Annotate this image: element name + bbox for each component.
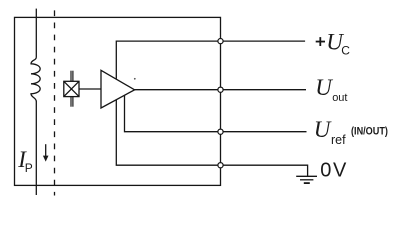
supply wire to +UC terminal <box>116 41 220 79</box>
primary conductor top lead <box>35 9 37 58</box>
hall element top contact <box>71 71 73 82</box>
wire Uref terminal lead <box>221 131 307 133</box>
terminal node Uout <box>218 87 223 92</box>
wire hall output to amplifier <box>79 88 101 90</box>
label Uout <box>315 75 347 104</box>
label 0V <box>320 159 348 181</box>
magnetic core dashed line <box>54 10 56 195</box>
svg-text:ref: ref <box>331 133 346 147</box>
hall element bottom contact <box>71 97 73 107</box>
wire amplifier output to Uout terminal <box>135 89 221 91</box>
ground <box>296 176 317 183</box>
wire +UC terminal lead <box>221 40 306 42</box>
primary winding <box>31 57 40 101</box>
stray dot <box>134 78 136 80</box>
terminal node Uref <box>218 129 223 134</box>
primary conductor bottom lead <box>35 101 37 195</box>
label +UC <box>316 30 351 58</box>
label IP <box>17 147 33 175</box>
terminal node +UC <box>218 39 223 44</box>
wire Uout terminal lead <box>221 89 307 91</box>
svg-text:out: out <box>332 92 347 104</box>
svg-text:0V: 0V <box>320 159 348 181</box>
label Uref (IN/OUT) <box>314 117 388 147</box>
hall generator box with X <box>64 81 79 96</box>
terminal node 0V <box>218 163 223 168</box>
svg-text:C: C <box>341 44 350 58</box>
wire 0V terminal lead <box>221 165 308 176</box>
op-amp triangle <box>101 70 135 108</box>
svg-text:P: P <box>25 161 33 175</box>
svg-text:(IN/OUT): (IN/OUT) <box>351 126 388 138</box>
svg-text:U: U <box>315 75 333 100</box>
wire amplifier to Uref terminal <box>125 95 221 131</box>
svg-text:U: U <box>314 117 332 142</box>
wire amplifier to 0V terminal <box>116 100 220 165</box>
outer module box <box>15 17 221 185</box>
primary current arrow <box>43 144 49 161</box>
